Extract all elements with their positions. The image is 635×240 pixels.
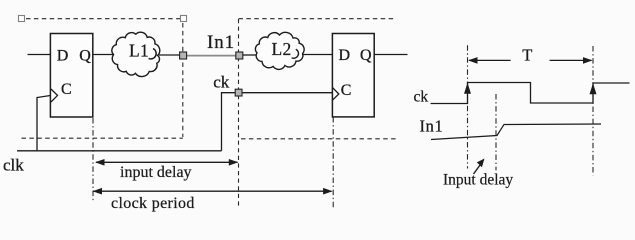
Input delay pointer arrow — [474, 163, 482, 174]
timing diagram: dash-dot reference line 3 (In1 transition) — [495, 94, 497, 170]
wire cloud L2 to U2 D input — [302, 54, 332, 56]
logic cloud L1 — [112, 32, 160, 76]
wire handle to cloud L2 — [243, 54, 257, 56]
svg-text:Q: Q — [360, 47, 372, 64]
U2 clock input notch — [332, 87, 339, 100]
svg-text:Input delay: Input delay — [443, 172, 513, 189]
selection dashed box 1 bottom edge — [22, 137, 183, 139]
timing diagram: dash-dot reference line 1 (first ck rising edge) — [467, 45, 469, 168]
ck rising edge arrowhead 1 — [464, 83, 471, 94]
svg-text:L2: L2 — [272, 39, 292, 59]
svg-text:C: C — [341, 82, 352, 99]
L2 cloud inner curl — [292, 49, 299, 58]
L1 cloud inner curl — [149, 49, 157, 59]
input delay dimension arrow — [96, 161, 238, 163]
ck waveform — [431, 83, 630, 104]
selection handle (hollow, top-right) — [181, 16, 187, 22]
U1 clock input notch — [51, 89, 58, 102]
timing diagram: dash-dot reference line 2 (second ck rising edge) — [592, 46, 594, 175]
svg-text:Q: Q — [79, 48, 91, 65]
dash-dot vertical reference line x=93 — [92, 118, 94, 201]
wire D input of U1 — [28, 54, 52, 56]
wire cloud L1 to handle — [159, 54, 180, 56]
svg-text:L1: L1 — [129, 40, 149, 60]
svg-text:input delay: input delay — [120, 164, 192, 181]
selection dashed box 1 top edge — [26, 18, 180, 20]
wire ck (riser and run to U2 C input) — [222, 93, 333, 151]
svg-text:clk: clk — [3, 156, 24, 175]
svg-text:ck: ck — [414, 89, 429, 106]
svg-text:In1: In1 — [420, 117, 444, 136]
svg-text:clock period: clock period — [111, 195, 195, 212]
selection handle (hollow, top-left) — [19, 16, 25, 22]
D flip-flop U1 box — [50, 34, 92, 118]
selection dashed box 2 top edge — [239, 18, 397, 20]
wire Q2 output — [374, 54, 407, 56]
wire grab handle (gray) on ck wire — [235, 89, 242, 96]
selected wire In1 (gray) — [183, 55, 239, 57]
T dimension arrow — [469, 59, 511, 61]
svg-text:ck: ck — [213, 72, 230, 91]
In1 waveform — [431, 124, 601, 140]
wire grab handle (gray) left — [180, 52, 187, 59]
wire Q1 output to cloud L1 — [93, 54, 115, 56]
selection dashed box 1 right edge — [182, 23, 184, 137]
D flip-flop U2 box — [332, 34, 374, 117]
dash-dot vertical reference line x=333 — [332, 117, 334, 208]
logic cloud L2 — [255, 32, 304, 69]
wire grab handle (gray) right — [236, 52, 243, 59]
wire clk to U1 C input — [37, 96, 50, 151]
clock period dimension arrow — [93, 190, 332, 192]
svg-text:T: T — [522, 46, 532, 65]
svg-text:D: D — [339, 47, 351, 64]
svg-text:C: C — [61, 81, 72, 98]
dashed vertical line x=238.5 (box 2 left edge / timing reference) — [238, 19, 240, 209]
svg-text:In1: In1 — [207, 32, 235, 53]
svg-text:D: D — [57, 48, 69, 65]
selection dashed box 2 bottom edge — [241, 138, 398, 140]
ck rising edge arrowhead 2 — [590, 83, 597, 94]
wire clk horizontal — [17, 150, 222, 152]
